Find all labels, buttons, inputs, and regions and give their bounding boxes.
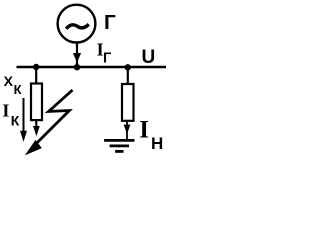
svg-text:К: К — [14, 82, 22, 97]
generator tilde symbol — [66, 24, 89, 29]
current arrow I_Н head — [124, 125, 131, 134]
bus bar — [17, 66, 167, 69]
svg-text:I: I — [139, 116, 149, 143]
wire right branch top — [127, 67, 129, 84]
svg-text:Г: Г — [104, 12, 116, 34]
svg-text:Г: Г — [103, 50, 111, 66]
arrow on left branch bottom — [33, 126, 40, 136]
reactor X_K (rectangle) — [31, 84, 42, 121]
short-circuit lightning arrow — [34, 90, 73, 146]
svg-text:К: К — [11, 113, 20, 129]
svg-text:X: X — [4, 73, 14, 89]
current arrow I_К — [23, 98, 25, 133]
svg-text:U: U — [142, 47, 156, 68]
wire left branch top — [35, 67, 37, 83]
wire left branch bottom — [35, 121, 37, 129]
wire generator lead — [76, 43, 78, 68]
wire right branch bottom — [126, 122, 128, 140]
node junction right — [125, 64, 131, 70]
svg-text:Н: Н — [151, 134, 163, 153]
current arrow I_Г head — [73, 53, 81, 63]
node junction center — [74, 64, 80, 70]
ground symbol — [104, 139, 134, 142]
AC generator G — [58, 5, 96, 43]
node junction left — [33, 64, 39, 70]
load resistor (rectangle) — [122, 84, 134, 121]
svg-text:I: I — [2, 101, 9, 121]
